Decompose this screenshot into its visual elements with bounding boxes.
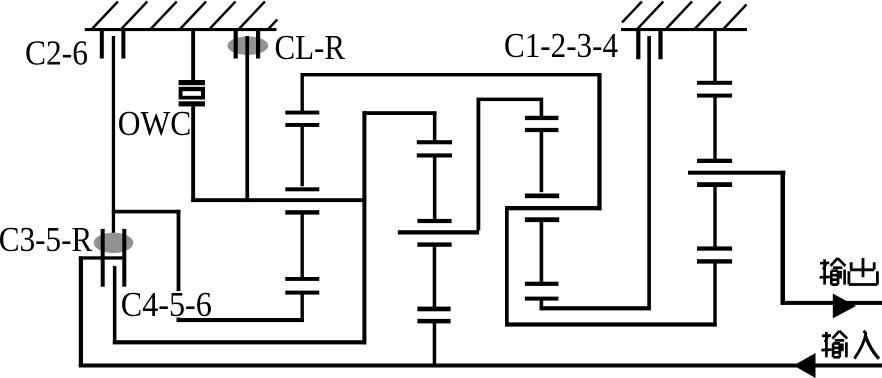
P3 gear plate a <box>417 140 452 144</box>
svg-text:OWC: OWC <box>118 104 192 143</box>
P3 gear plate d <box>417 307 450 312</box>
svg-text:C4-5-6: C4-5-6 <box>121 285 212 324</box>
planetary column P1 upper shaft <box>301 76 304 112</box>
bracket P2-P3 top bar <box>362 111 436 115</box>
P1 gear plate e <box>285 277 319 281</box>
P8 gear plate upper of sandwich <box>697 159 732 163</box>
brake C2-6 right plate <box>121 31 125 59</box>
one-way clutch OWC shaft upper <box>191 31 195 81</box>
P8 shaft top <box>713 31 716 81</box>
P5 leg upper <box>540 101 544 116</box>
carrier elbow vertical <box>177 210 181 322</box>
P8 gear plate b <box>697 94 732 98</box>
P8 gear plate a <box>697 81 732 85</box>
svg-text:CL-R: CL-R <box>275 28 346 67</box>
clutch CL-R right plate <box>256 31 260 59</box>
P5 gear plate a <box>525 116 559 120</box>
label input 输入 : char ru <box>854 331 879 359</box>
bracket P4-P5 top bar <box>477 98 544 102</box>
input left vertical <box>79 256 83 367</box>
P1 gear plate b <box>285 123 319 127</box>
fixed housing wall left (hatched ground) <box>85 2 277 32</box>
P3 gear plate lower of sandwich <box>417 242 451 246</box>
carrier line 2 <box>505 206 602 210</box>
P1 gear plate c <box>285 187 319 191</box>
C3-5-R lower shaft <box>113 266 117 344</box>
clutch CL-R shaded ellipse <box>227 36 268 55</box>
white mask under C4-5-6 <box>119 291 213 318</box>
one-way clutch OWC symbol <box>179 80 205 106</box>
P5 shaft mid <box>540 132 544 192</box>
P1 gear plate a <box>285 111 319 115</box>
P5 gear plate b <box>525 128 559 132</box>
carrier 2 left leg down <box>505 206 509 326</box>
P5 gear plate d <box>525 217 559 222</box>
shaft from C2-6 down to C3-5-R <box>112 36 115 249</box>
P1 gear plate f <box>285 291 319 295</box>
P1 gear plate d <box>285 210 319 214</box>
clutch C3-5-R right plate <box>122 229 126 287</box>
clutch CL-R left plate <box>234 31 238 59</box>
carrier line 1 from OWC to P2 leg <box>191 198 366 202</box>
svg-text:C2-6: C2-6 <box>25 34 88 73</box>
output drum vertical <box>781 171 786 305</box>
P5 gear plate f <box>525 297 559 301</box>
right drum vertical P6 <box>597 76 601 210</box>
P1 shaft lower <box>301 214 304 278</box>
P3 sun shaft upper <box>433 114 437 141</box>
fixed housing wall right (hatched ground) <box>621 2 747 32</box>
bracket P2 left leg down to lower tie <box>362 111 366 344</box>
P5 gear plate e <box>525 282 559 286</box>
P5 gear plate c <box>525 194 559 199</box>
bracket P4 left leg down to long plate <box>477 98 481 231</box>
P8 shaft bottom <box>713 263 716 327</box>
P8 shaft mid <box>713 97 716 159</box>
output line <box>781 301 882 305</box>
lower tie line to P2 leg <box>113 340 366 344</box>
brake C2-6 left plate <box>100 31 104 59</box>
P5 shaft lower <box>540 221 544 282</box>
P8 shaft lower <box>713 187 716 247</box>
P3 shaft to input line <box>433 323 437 366</box>
input arrowhead <box>794 353 816 378</box>
input line <box>79 364 882 368</box>
top connecting line from ring1 to right drum <box>301 73 602 76</box>
P1 shaft mid <box>301 126 304 186</box>
P3 shaft mid <box>433 157 437 219</box>
clutch C1-2-3-4 right plate <box>658 31 662 59</box>
bottom tie line to P8 <box>505 322 717 326</box>
svg-text:C1-2-3-4: C1-2-3-4 <box>504 26 618 65</box>
clutch CL-R shaft down to carrier <box>245 36 249 202</box>
output arrowhead <box>833 294 856 319</box>
P8 long middle plate <box>688 171 785 175</box>
svg-text:C3-5-R: C3-5-R <box>0 220 93 259</box>
label output 输出 : char shu <box>820 258 846 284</box>
clutch C1-2-3-4 left plate <box>636 31 640 59</box>
label output 输出 : char chu <box>849 258 878 285</box>
carrier elbow horizontal from main shaft <box>112 210 181 214</box>
P5 shaft bottom stub <box>540 300 544 310</box>
clutch C1-2-3-4 shaft down <box>647 36 651 307</box>
P3 gear plate b <box>417 153 452 157</box>
tie line carrier to P1 bottom <box>177 318 304 322</box>
P3 gear plate upper of sandwich <box>417 219 451 223</box>
one-way clutch OWC shaft lower <box>191 106 195 202</box>
clutch C3-5-R left plate <box>101 229 105 287</box>
input hub horizontal line <box>79 256 123 259</box>
P1 shaft bottom <box>301 294 304 322</box>
P8 gear plate e <box>697 246 732 250</box>
P8 gear plate lower of sandwich <box>697 182 732 187</box>
P3 shaft lower <box>433 247 437 307</box>
P3 gear plate e <box>417 319 450 324</box>
tie line P5 bottom to C1-2-3-4 shaft <box>540 306 651 310</box>
P8 gear plate f <box>697 259 732 263</box>
clutch C3-5-R shaded ellipse <box>94 233 134 253</box>
P3 long middle plate <box>398 230 479 234</box>
label input 输入 : char shu <box>821 331 847 357</box>
